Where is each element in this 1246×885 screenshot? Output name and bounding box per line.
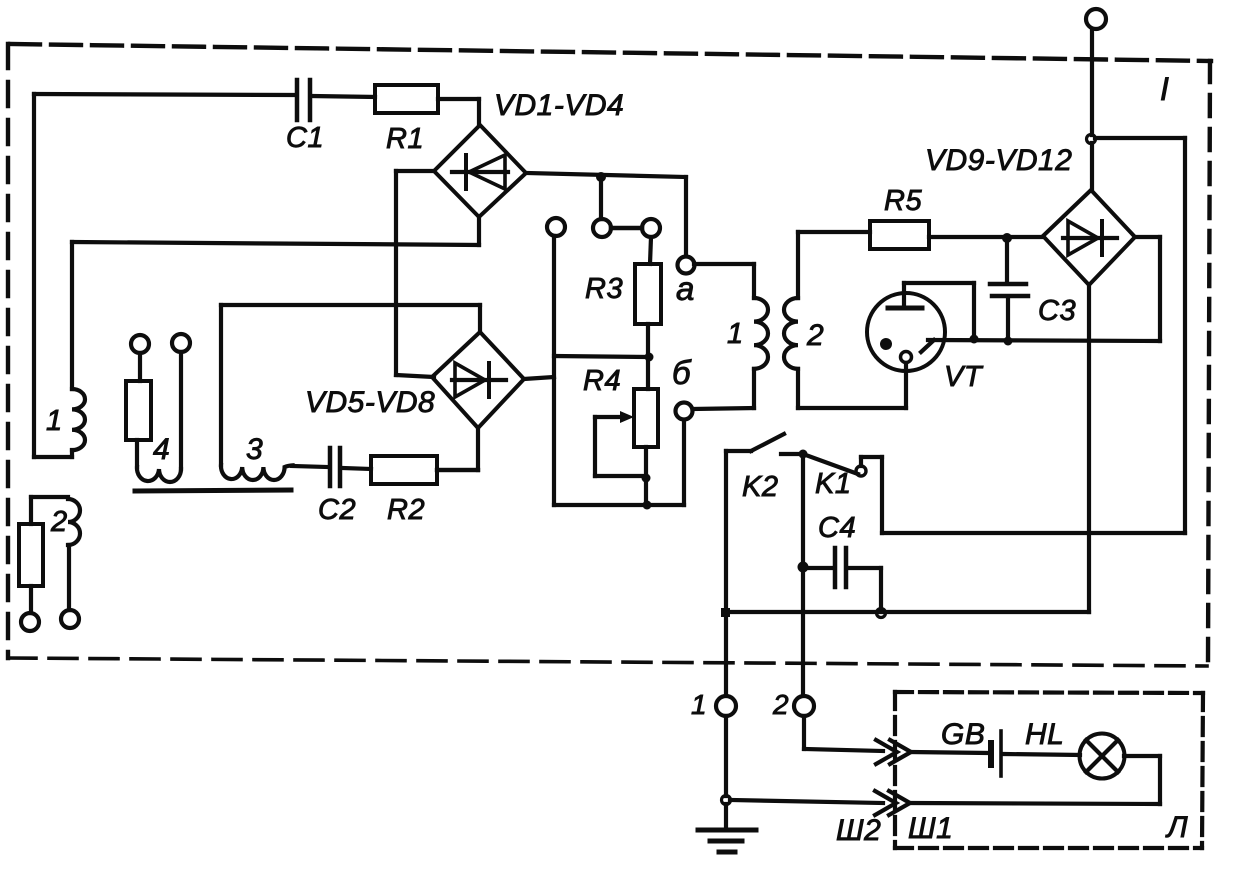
svg-text:1: 1 xyxy=(46,405,63,437)
svg-text:2: 2 xyxy=(772,689,789,720)
svg-text:R2: R2 xyxy=(387,494,425,526)
svg-text:2: 2 xyxy=(806,319,824,352)
svg-text:C3: C3 xyxy=(1038,295,1076,327)
svg-text:I: I xyxy=(1160,71,1169,107)
svg-text:1: 1 xyxy=(691,689,707,720)
svg-text:R5: R5 xyxy=(884,185,922,217)
svg-text:4: 4 xyxy=(153,433,170,466)
svg-text:R3: R3 xyxy=(585,273,623,305)
svg-text:Ш1: Ш1 xyxy=(908,812,953,845)
svg-text:K2: K2 xyxy=(742,471,778,503)
svg-text:HL: HL xyxy=(1025,718,1064,751)
svg-text:VT: VT xyxy=(944,361,984,393)
svg-text:а: а xyxy=(676,270,695,307)
svg-text:б: б xyxy=(672,354,692,391)
svg-text:Л: Л xyxy=(1165,811,1188,844)
svg-text:VD5-VD8: VD5-VD8 xyxy=(305,386,435,419)
svg-text:C2: C2 xyxy=(318,494,356,526)
svg-text:2: 2 xyxy=(50,506,68,538)
svg-text:VD1-VD4: VD1-VD4 xyxy=(494,89,624,122)
svg-text:R1: R1 xyxy=(386,123,424,155)
svg-text:3: 3 xyxy=(246,433,263,466)
svg-text:1: 1 xyxy=(727,318,744,350)
svg-text:C4: C4 xyxy=(818,512,856,544)
svg-text:Ш2: Ш2 xyxy=(836,814,881,847)
svg-text:GB: GB xyxy=(941,718,985,751)
svg-text:K1: K1 xyxy=(815,468,851,500)
svg-text:R4: R4 xyxy=(583,365,621,397)
svg-text:VD9-VD12: VD9-VD12 xyxy=(925,144,1072,177)
svg-text:C1: C1 xyxy=(286,122,324,154)
